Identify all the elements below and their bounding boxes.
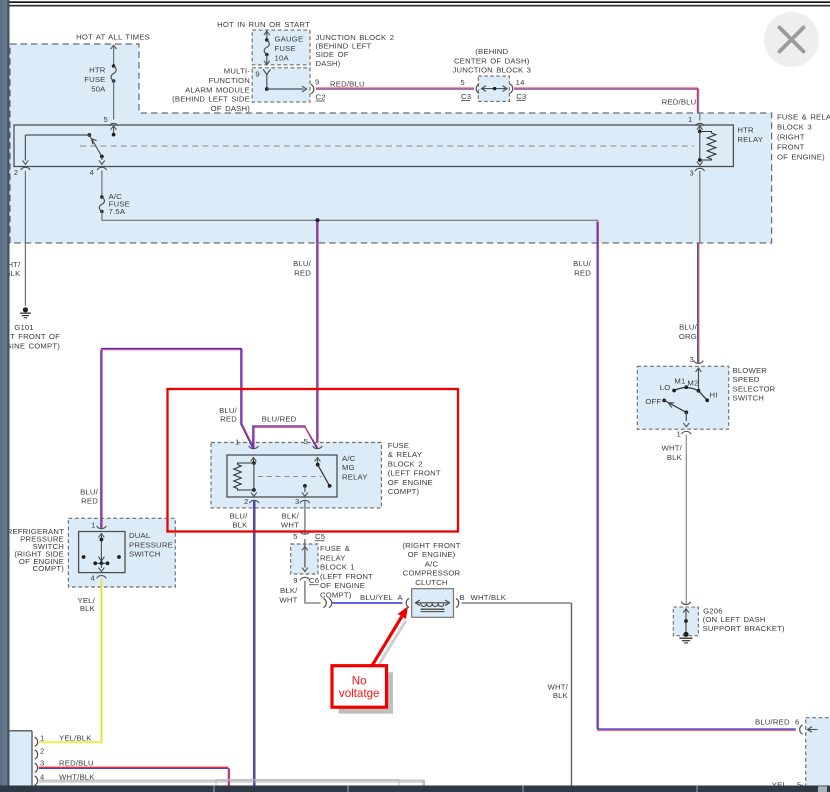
pin 4 exit of dual pressure switch — [97, 576, 107, 579]
pin 2 exit — [23, 160, 29, 164]
svg-text:BLK/: BLK/ — [280, 586, 298, 595]
svg-text:BLK/: BLK/ — [282, 511, 300, 520]
svg-text:HTR: HTR — [89, 66, 106, 75]
svg-text:COMPT): COMPT) — [320, 591, 352, 600]
connector cavity pin 5 — [35, 785, 38, 792]
svg-text:ALARM MODULE: ALARM MODULE — [185, 85, 250, 94]
svg-text:3: 3 — [295, 497, 299, 506]
svg-text:RELAY: RELAY — [342, 472, 368, 481]
svg-text:FUSE & RELAY: FUSE & RELAY — [777, 112, 830, 121]
svg-text:(BEHIND: (BEHIND — [475, 47, 508, 56]
wire RED/BLU C2 to C3 — [316, 87, 474, 89]
gauge fuse 10A — [264, 31, 270, 35]
svg-text:WHT: WHT — [279, 596, 297, 605]
A/C MG relay internal dashed divider — [258, 476, 322, 478]
svg-text:BLK: BLK — [232, 521, 248, 530]
svg-text:(RIGHT FRONT: (RIGHT FRONT — [402, 541, 460, 550]
svg-text:RED/BLU: RED/BLU — [59, 759, 94, 768]
svg-text:BLU/: BLU/ — [573, 259, 592, 268]
svg-text:(ON LEFT DASH: (ON LEFT DASH — [703, 615, 766, 624]
wire BLU/BLK from MG relay pin 2 — [253, 501, 255, 786]
wire YEL/BLK — [100, 579, 102, 743]
svg-text:BLU/: BLU/ — [80, 487, 99, 496]
svg-text:voltatge: voltatge — [339, 687, 380, 700]
svg-text:4: 4 — [90, 168, 95, 177]
bottom bar — [0, 786, 830, 792]
svg-text:HOT AT ALL TIMES: HOT AT ALL TIMES — [76, 33, 150, 42]
pin 3 exit of A/C MG relay — [304, 486, 306, 492]
fuse & relay block 1 box — [291, 544, 318, 574]
svg-text:4: 4 — [91, 573, 96, 582]
svg-text:C2: C2 — [316, 93, 326, 102]
svg-text:RELAY: RELAY — [320, 553, 346, 562]
top window border lines — [0, 0, 830, 1]
wire BLU/RED to connector pin 6 — [597, 728, 796, 730]
svg-text:FUSE: FUSE — [275, 44, 296, 53]
svg-text:(LEFT FRONT: (LEFT FRONT — [388, 469, 441, 478]
svg-text:OF ENGINE): OF ENGINE) — [777, 152, 825, 161]
svg-text:COMPRESSOR: COMPRESSOR — [403, 569, 461, 578]
svg-text:9: 9 — [255, 70, 259, 79]
pin 1 exit of blower switch — [682, 431, 692, 434]
svg-text:BLU/YEL: BLU/YEL — [360, 593, 394, 602]
svg-text:FRONT: FRONT — [777, 142, 805, 151]
svg-text:RED/BLU: RED/BLU — [662, 98, 697, 107]
wire BLK/WHT C6 to inline connector — [304, 581, 306, 603]
svg-text:CENTER OF DASH): CENTER OF DASH) — [454, 56, 530, 65]
svg-text:RED: RED — [81, 497, 98, 506]
highlight box annotation — [168, 389, 459, 532]
svg-text:ORG: ORG — [679, 332, 697, 341]
wire A/C fuse output bus — [101, 212, 103, 220]
pin 9 connector C6 — [300, 577, 310, 580]
connector cavity pin 4 — [35, 776, 38, 785]
wire BLU/RED right drop — [596, 222, 598, 730]
svg-text:SELECTOR: SELECTOR — [733, 384, 776, 393]
svg-text:A/C: A/C — [342, 454, 356, 463]
relay HTR coil — [696, 123, 704, 126]
svg-text:BLK: BLK — [80, 604, 96, 613]
svg-text:HTR: HTR — [737, 126, 754, 135]
svg-text:WHT/BLK: WHT/BLK — [471, 593, 507, 602]
svg-text:HI: HI — [710, 390, 718, 399]
svg-text:FUSE &: FUSE & — [320, 544, 350, 553]
pin 5 connector C5 — [300, 531, 310, 534]
svg-text:1: 1 — [91, 520, 95, 529]
svg-text:2: 2 — [14, 168, 18, 177]
wire RED/BLU bottom — [39, 766, 229, 768]
junction node — [316, 218, 320, 222]
svg-text:1: 1 — [40, 733, 44, 742]
svg-text:SUPPORT BRACKET): SUPPORT BRACKET) — [703, 624, 785, 633]
svg-text:FUSE: FUSE — [84, 75, 105, 84]
no voltage callout box shadow — [339, 672, 394, 714]
svg-text:COMPT): COMPT) — [32, 564, 64, 573]
svg-text:MULTI-: MULTI- — [224, 67, 250, 76]
svg-text:WHT: WHT — [281, 521, 299, 530]
svg-text:COMPT): COMPT) — [388, 487, 420, 496]
relay box (fuse & relay block 3 internal) — [14, 125, 733, 167]
connector B — [456, 598, 459, 607]
svg-text:2: 2 — [40, 747, 44, 756]
no voltage callout box — [332, 666, 387, 708]
blower switch OFF arm — [662, 399, 666, 403]
svg-text:& RELAY: & RELAY — [388, 450, 422, 459]
svg-text:FUNCTION: FUNCTION — [209, 76, 250, 85]
fusible element — [304, 539, 306, 546]
A/C MG relay coil — [252, 461, 256, 465]
svg-text:YEL/BLK: YEL/BLK — [59, 733, 92, 742]
fuse A/C 7.5A — [100, 195, 104, 199]
A/C MG relay switch arm — [316, 463, 320, 467]
connector cavity pin 3 — [35, 763, 38, 772]
wire BLU/YEL to compressor clutch — [333, 602, 403, 604]
svg-text:M1: M1 — [674, 377, 685, 386]
svg-text:1: 1 — [235, 438, 239, 447]
wire WHT/BLK blower to G206 — [685, 435, 687, 605]
svg-text:SWITCH: SWITCH — [129, 550, 161, 559]
svg-text:PRESSURE: PRESSURE — [129, 540, 173, 549]
svg-text:5: 5 — [293, 532, 297, 541]
svg-text:BLOCK 1: BLOCK 1 — [320, 563, 355, 572]
svg-text:C3: C3 — [461, 92, 471, 101]
close button — [764, 12, 819, 67]
inline connector — [323, 598, 326, 607]
svg-text:GAUGE: GAUGE — [275, 35, 304, 44]
svg-text:9: 9 — [293, 576, 297, 585]
svg-text:6: 6 — [795, 718, 799, 727]
svg-text:3: 3 — [690, 168, 694, 177]
wire BLK/WHT from MG relay pin 3 — [304, 501, 306, 534]
svg-text:BLU/: BLU/ — [230, 511, 249, 520]
A/C compressor clutch box — [412, 589, 454, 618]
wire BLU/RED jumper pin1 to pin5 — [253, 426, 317, 449]
svg-text:BLU/RED: BLU/RED — [262, 415, 297, 424]
pin 3 exit of HTR relay — [697, 161, 703, 165]
wire WHT/BLK from clutch — [462, 602, 572, 604]
blower switch internals — [696, 368, 702, 372]
wire BLU/ORG from HTR relay pin 3 — [699, 171, 701, 243]
connector cavity pin 2 — [35, 750, 38, 759]
svg-text:RED: RED — [294, 268, 311, 277]
svg-text:A/C: A/C — [425, 559, 439, 568]
svg-text:RED: RED — [220, 414, 237, 423]
relay switch contact (pins 5-4-2) — [87, 133, 91, 137]
svg-text:3: 3 — [690, 355, 694, 364]
multi-function alarm module box — [252, 68, 310, 102]
A/C MG relay solid box — [227, 455, 337, 497]
svg-text:OF DASH): OF DASH) — [211, 104, 251, 113]
no voltage arrow — [372, 617, 402, 666]
svg-text:5: 5 — [104, 115, 108, 124]
bottom left connector block — [9, 731, 32, 792]
svg-text:FUSE: FUSE — [388, 441, 409, 450]
svg-text:(RIGHT: (RIGHT — [777, 132, 805, 141]
junction block 2 gauge fuse box — [252, 30, 310, 65]
svg-text:BLU/RED: BLU/RED — [755, 718, 790, 727]
svg-text:DUAL: DUAL — [129, 531, 151, 540]
wire WHT/BLK to G101 — [24, 171, 26, 306]
fuse & relay block 3 outline (power distribution band) — [10, 44, 772, 243]
svg-text:B: B — [460, 593, 465, 602]
svg-text:OF ENGINE): OF ENGINE) — [408, 550, 456, 559]
partial box at bottom — [216, 780, 399, 786]
svg-text:10A: 10A — [275, 53, 290, 62]
wire WHT/BLK bottom — [39, 779, 424, 781]
svg-text:MG: MG — [342, 463, 355, 472]
svg-text:BLK: BLK — [667, 453, 683, 462]
svg-text:M2: M2 — [687, 379, 698, 388]
refrigerant pressure switch box — [68, 518, 175, 587]
connector A — [406, 598, 409, 607]
wire BLU/RED bridge — [100, 350, 102, 520]
svg-text:1: 1 — [688, 115, 692, 124]
svg-text:OF ENGINE: OF ENGINE — [388, 478, 433, 487]
fuse & relay block 2 box — [211, 443, 381, 508]
wire pin 4 to A/C fuse — [101, 171, 103, 198]
pin 1 of dual pressure switch — [100, 518, 102, 529]
svg-text:OF ENGINE: OF ENGINE — [320, 581, 365, 590]
svg-text:CLUTCH: CLUTCH — [415, 578, 447, 587]
fuse HTR 50A — [112, 64, 116, 68]
svg-text:BLOCK 3: BLOCK 3 — [777, 122, 812, 131]
wire RED/BLU C3 to HTR relay — [514, 87, 698, 89]
svg-text:C5: C5 — [315, 532, 325, 541]
svg-text:BLU/: BLU/ — [293, 259, 312, 268]
connector C3 (junction block 3) — [478, 76, 509, 101]
svg-text:3: 3 — [40, 759, 44, 768]
svg-text:HOT IN RUN OR START: HOT IN RUN OR START — [217, 20, 310, 29]
svg-text:1: 1 — [677, 429, 681, 438]
svg-text:2: 2 — [244, 497, 248, 506]
HTR fuse 50A feed wire — [111, 45, 117, 49]
svg-text:5: 5 — [460, 78, 464, 87]
switch arm — [89, 135, 102, 157]
connector C2 pin 9 — [311, 84, 314, 93]
ground G206 box — [681, 602, 691, 605]
svg-text:LO: LO — [660, 383, 671, 392]
svg-text:(LEFT FRONT: (LEFT FRONT — [320, 572, 373, 581]
svg-text:SWITCH: SWITCH — [733, 394, 765, 403]
svg-text:JUNCTION BLOCK 3: JUNCTION BLOCK 3 — [452, 66, 531, 75]
connector cavity pin 1 — [35, 737, 38, 746]
svg-text:RED/BLU: RED/BLU — [330, 80, 365, 89]
svg-text:BLK: BLK — [553, 691, 569, 700]
svg-text:BLU/: BLU/ — [679, 323, 698, 332]
relay internal dashed divider — [80, 145, 694, 147]
svg-text:7.5A: 7.5A — [109, 207, 126, 216]
svg-text:(BEHIND LEFT SIDE: (BEHIND LEFT SIDE — [172, 95, 250, 104]
right edge component box — [806, 718, 830, 792]
svg-text:C3: C3 — [516, 92, 526, 101]
blower speed selector switch box — [637, 366, 728, 429]
svg-text:RED: RED — [574, 268, 591, 277]
svg-text:9: 9 — [315, 77, 319, 86]
svg-text:OFF: OFF — [645, 397, 661, 406]
svg-text:14: 14 — [516, 78, 525, 87]
ground G101 — [23, 307, 28, 312]
svg-text:A: A — [398, 593, 404, 602]
svg-text:5: 5 — [304, 437, 308, 446]
wire BLU/RED junction to A/C MG relay pin 5 — [316, 222, 318, 449]
svg-text:SPEED: SPEED — [733, 375, 760, 384]
svg-text:50A: 50A — [91, 84, 106, 93]
svg-text:BLOWER: BLOWER — [733, 366, 768, 375]
svg-text:BLOCK 2: BLOCK 2 — [388, 459, 423, 468]
svg-text:WHT/: WHT/ — [662, 444, 683, 453]
svg-text:C6: C6 — [309, 576, 319, 585]
dual pressure switch internals — [99, 534, 105, 538]
dual pressure switch solid box — [79, 532, 125, 573]
no voltage arrow shadow — [377, 621, 406, 668]
pin 2 exit of A/C MG relay — [253, 490, 255, 492]
clutch coil symbol — [416, 600, 420, 606]
svg-text:No: No — [352, 675, 367, 688]
svg-text:DASH): DASH) — [316, 59, 341, 68]
svg-text:G101: G101 — [14, 323, 34, 332]
pin 4 exit — [101, 157, 103, 161]
svg-text:RELAY: RELAY — [737, 135, 763, 144]
